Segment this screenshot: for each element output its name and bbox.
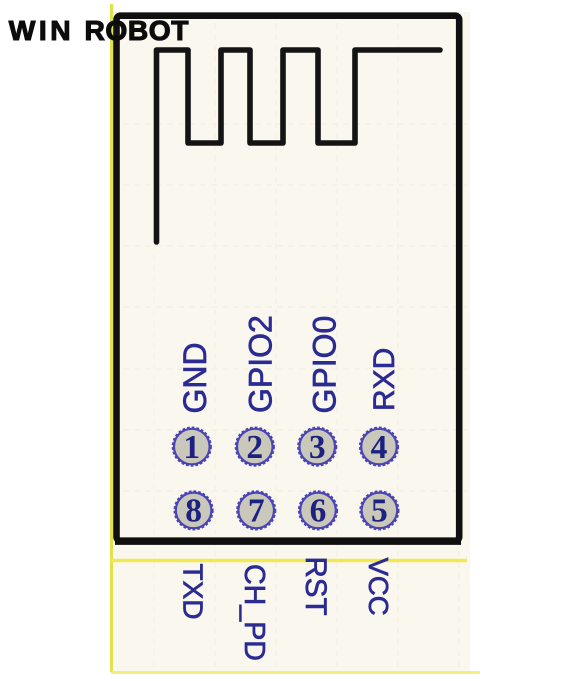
svg-text:TXD: TXD <box>178 564 209 620</box>
module outline U1 (ESP-01 footprint) <box>117 16 460 541</box>
svg-text:5: 5 <box>371 493 388 530</box>
svg-text:RXD: RXD <box>368 348 401 411</box>
svg-text:1: 1 <box>183 429 200 466</box>
svg-text:6: 6 <box>310 493 327 530</box>
pin 1 pad <box>173 428 211 466</box>
pin 6 pad <box>299 491 337 529</box>
pin 4 pad <box>360 428 398 466</box>
svg-text:8: 8 <box>185 493 202 530</box>
svg-text:VCC: VCC <box>363 558 394 616</box>
svg-text:7: 7 <box>248 493 265 530</box>
svg-text:CH_PD: CH_PD <box>238 564 270 661</box>
svg-text:GPIO0: GPIO0 <box>307 316 343 414</box>
pin 2 pad <box>236 428 274 466</box>
pin 3 pad <box>298 428 336 466</box>
board edge: yellow horizontal line under module <box>111 559 467 562</box>
svg-text:GPIO2: GPIO2 <box>243 315 279 413</box>
svg-text:3: 3 <box>309 429 326 466</box>
svg-text:2: 2 <box>246 429 263 466</box>
svg-text:WINROBOT: WINROBOT <box>9 14 189 46</box>
svg-text:GND: GND <box>177 342 213 413</box>
pin 5 pad <box>360 491 398 529</box>
pin 7 pad <box>237 491 275 529</box>
PCB antenna trace (meander) <box>157 50 441 242</box>
svg-text:4: 4 <box>371 429 388 466</box>
pin 8 pad <box>175 491 213 529</box>
board edge: yellow bottom horizontal line <box>111 671 480 674</box>
board edge: yellow vertical line <box>110 4 113 672</box>
svg-text:RST: RST <box>299 557 332 616</box>
